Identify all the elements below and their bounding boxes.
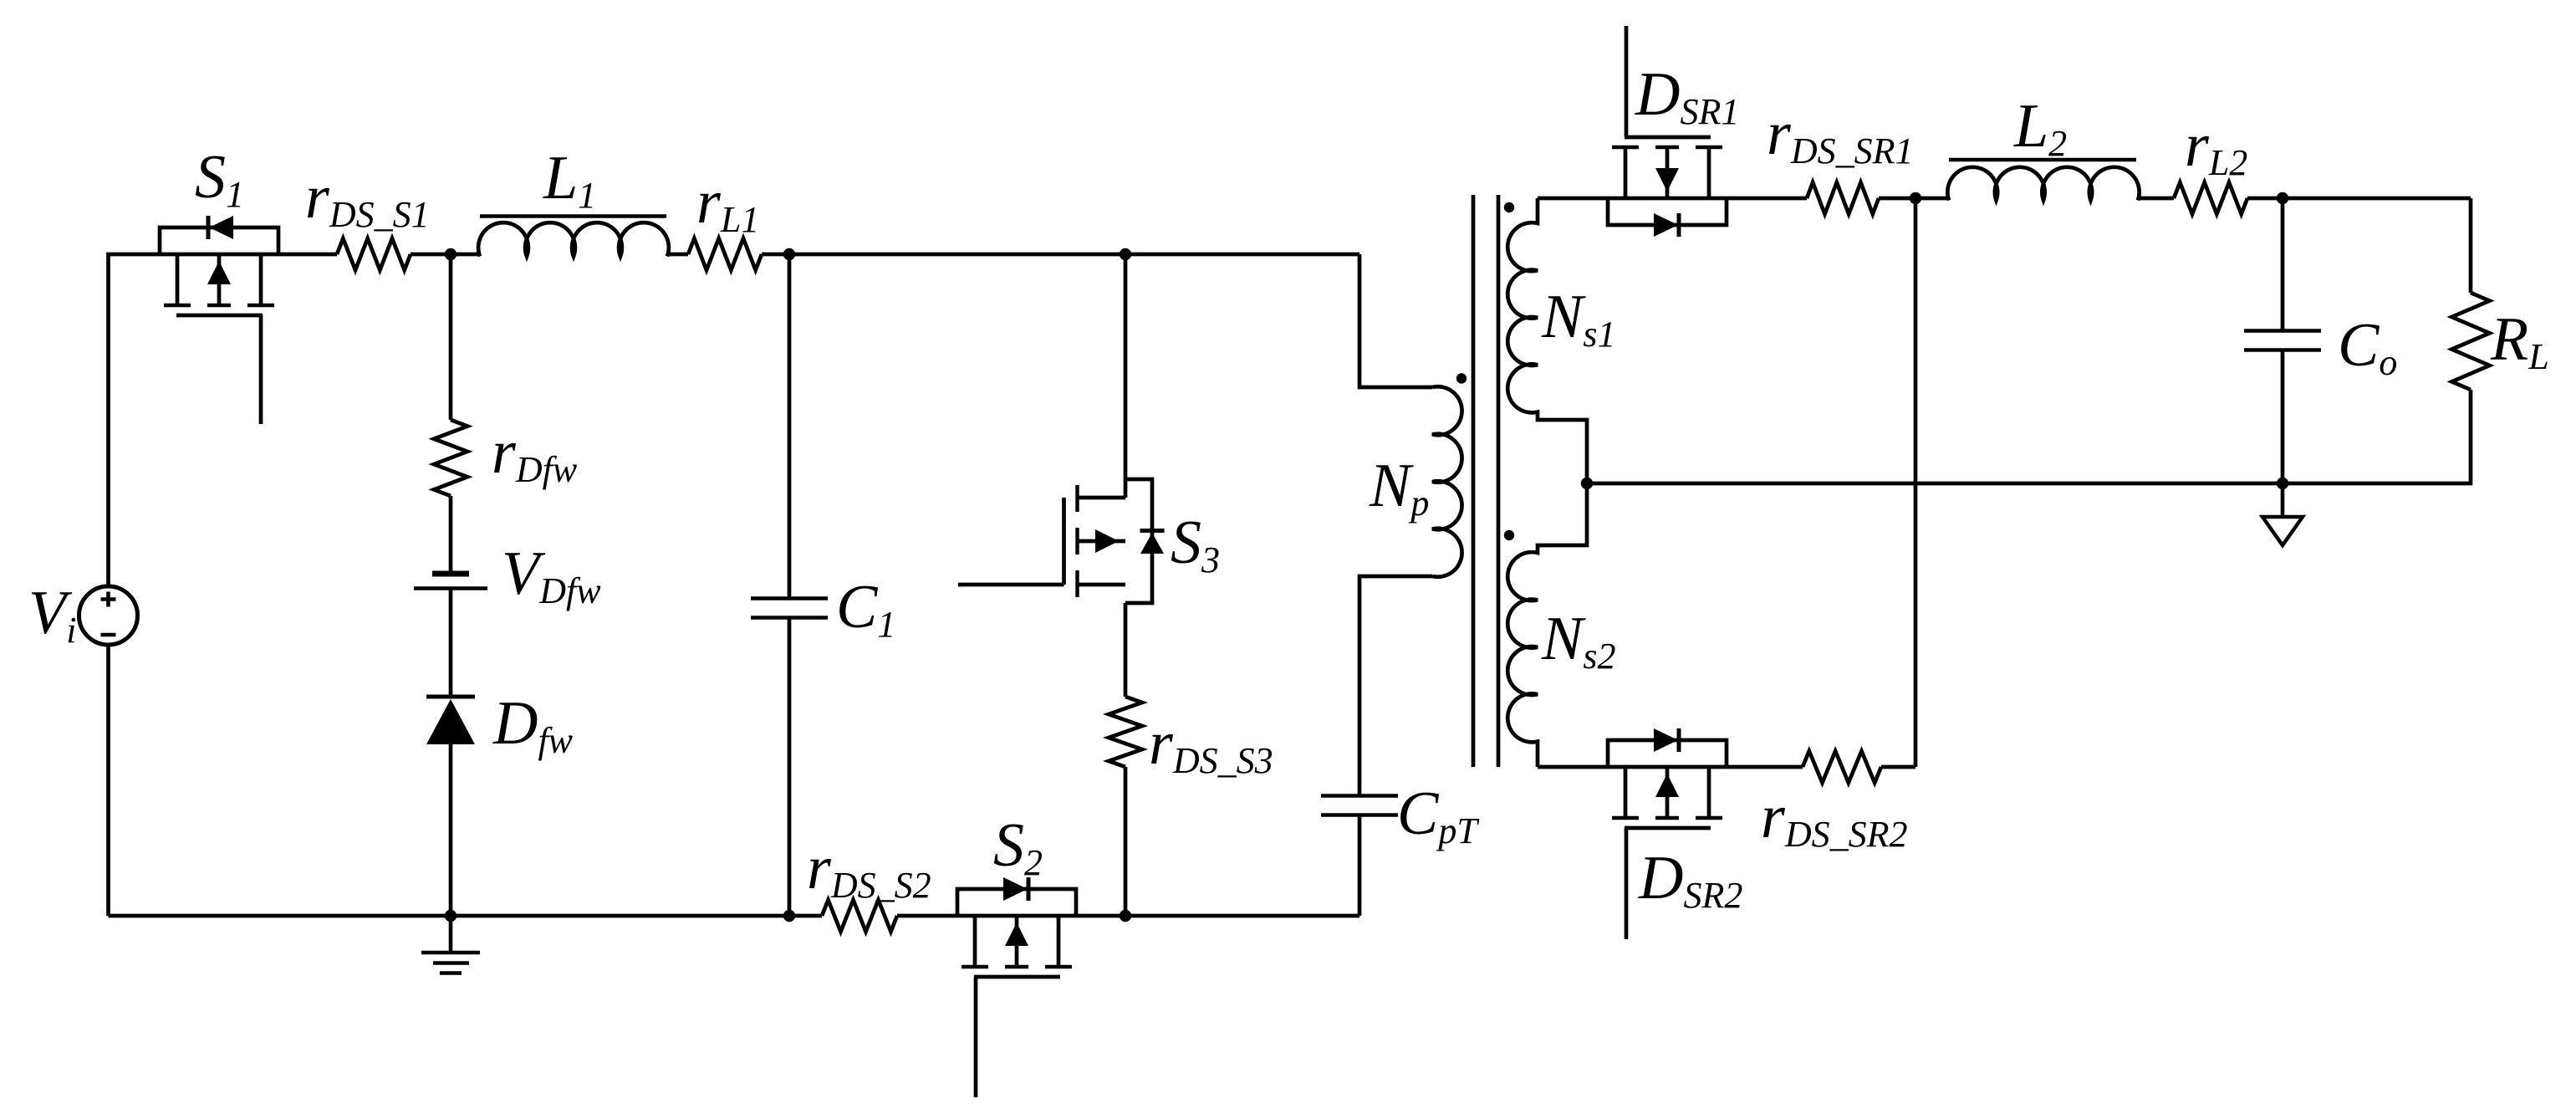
wire r_DS_SR1 to L2 xyxy=(1879,197,1949,201)
capacitor Co xyxy=(2244,331,2321,350)
transformer primary winding Np xyxy=(1432,386,1462,577)
transformer secondary winding Ns2 xyxy=(1507,483,1587,767)
resistor r_DS_S1 xyxy=(337,238,411,270)
node center tap xyxy=(1581,478,1593,489)
label CpT xyxy=(1397,779,1480,851)
label r_Dfw xyxy=(492,418,578,490)
resistor r_DS_S2 xyxy=(822,900,897,932)
wire top rail to S3 xyxy=(1124,254,1128,498)
label S3 xyxy=(1171,508,1220,580)
resistor r_DS_SR1 xyxy=(1807,182,1879,214)
wire L2 to r_L2 xyxy=(2138,197,2174,201)
phase dot primary xyxy=(1456,373,1467,383)
wire C1 to bottom rail xyxy=(788,618,792,917)
wire bottom rail right of S2 xyxy=(897,914,1359,918)
wire top rail to C1 xyxy=(788,254,792,598)
label C1 xyxy=(836,573,895,645)
label S1 xyxy=(195,143,244,215)
transformer core line 2 xyxy=(1497,195,1501,767)
wire r_DS_S3 to bottom rail xyxy=(1124,767,1128,916)
wire CpT to bottom rail xyxy=(1358,815,1362,917)
wire r_L2 to output corner xyxy=(2247,197,2471,201)
inductor L1 xyxy=(478,222,669,256)
wire V_Dfw to D_fw xyxy=(449,590,453,697)
node junction at top of S3 branch xyxy=(1120,248,1131,260)
ground symbol output xyxy=(2262,483,2303,545)
label D_fw xyxy=(492,689,574,761)
label r_DS_SR1 xyxy=(1767,100,1913,171)
overline L1 xyxy=(480,214,666,218)
wire primary bottom lead xyxy=(1359,576,1432,796)
label L1 xyxy=(543,144,596,216)
wire output corner to RL xyxy=(2469,198,2473,293)
node junction at bottom of C1 branch xyxy=(783,910,795,922)
label Vi xyxy=(28,579,76,651)
transistor S2 (MOSFET with body diode) xyxy=(957,877,1076,1097)
node junction at top of Co branch xyxy=(2277,192,2288,204)
wire top rail to primary xyxy=(762,253,1359,257)
label Np xyxy=(1369,452,1429,524)
node junction after r_DS_SR1 xyxy=(1910,192,1921,204)
wire secondary top rail xyxy=(1538,197,1807,201)
wire SR link vertical xyxy=(1914,198,1918,767)
wire primary top lead xyxy=(1359,254,1432,387)
label Co xyxy=(2338,311,2397,383)
label r_L1 xyxy=(696,168,759,240)
node junction at top of Dfw branch xyxy=(445,248,457,260)
voltage source Vi xyxy=(79,586,138,645)
label r_DS_S2 xyxy=(807,834,931,906)
resistor r_L1 xyxy=(688,238,762,270)
node junction at bottom of S3 branch xyxy=(1120,910,1131,922)
wire L1 to r_L1 xyxy=(667,253,688,257)
label V_Dfw xyxy=(502,539,601,611)
transistor S1 (MOSFET with body diode) xyxy=(160,216,278,424)
wire RL to output return xyxy=(1587,390,2471,483)
node junction at top of C1 branch xyxy=(783,248,795,260)
wire r_Dfw to V_Dfw xyxy=(449,496,453,572)
capacitor C1 xyxy=(751,599,828,618)
wire node to Co xyxy=(2281,198,2285,331)
transformer core line 1 xyxy=(1472,195,1476,767)
wire node to r_Dfw xyxy=(449,254,453,420)
label r_L2 xyxy=(2185,111,2247,183)
label r_DS_S1 xyxy=(305,163,430,235)
resistor r_DS_S3 xyxy=(1109,697,1142,767)
resistor RL xyxy=(2451,293,2489,390)
transistor S3 (MOSFET with body diode) xyxy=(958,479,1165,603)
resistor r_DS_SR2 xyxy=(1803,751,1881,783)
label RL xyxy=(2490,305,2549,377)
resistor r_L2 xyxy=(2174,182,2247,214)
ground symbol xyxy=(421,916,480,973)
label S2 xyxy=(993,811,1043,883)
label r_DS_SR2 xyxy=(1761,783,1907,855)
label DSR1 xyxy=(1635,60,1739,132)
battery V_Dfw xyxy=(414,574,487,589)
wire D_fw to ground rail xyxy=(449,744,453,916)
diode D_fw xyxy=(426,697,475,744)
node junction at bottom of Co branch xyxy=(2277,478,2288,489)
transistor DSR2 (sync rectifier MOSFET) xyxy=(1608,728,1727,939)
wire secondary bottom rail xyxy=(1538,765,1803,769)
wire left rail top (Vi+ to S1 source) xyxy=(109,254,338,586)
label Ns1 xyxy=(1541,283,1615,355)
wire r_DS_SR2 to SR link xyxy=(1881,765,1915,769)
label r_DS_S3 xyxy=(1149,709,1273,781)
wire r_DS_S1 to L1 xyxy=(411,253,480,257)
overline L2 xyxy=(1949,158,2136,162)
label DSR2 xyxy=(1638,844,1742,916)
node junction on ground rail xyxy=(445,910,457,922)
wire Co to output return xyxy=(2281,350,2285,484)
inductor L2 xyxy=(1947,167,2139,201)
phase dot Ns1 xyxy=(1504,202,1514,212)
resistor r_Dfw xyxy=(434,420,467,496)
phase dot Ns2 xyxy=(1504,530,1514,540)
transformer secondary winding Ns1 xyxy=(1507,198,1587,483)
label L2 xyxy=(2013,92,2067,164)
label Ns2 xyxy=(1541,605,1615,677)
wire left rail bottom (Vi- to ground rail) xyxy=(106,645,110,916)
transistor DSR1 (sync rectifier MOSFET) xyxy=(1608,26,1727,237)
capacitor CpT xyxy=(1321,796,1398,815)
wire S3 to r_DS_S3 xyxy=(1124,603,1128,697)
wire bottom rail left xyxy=(109,914,823,918)
